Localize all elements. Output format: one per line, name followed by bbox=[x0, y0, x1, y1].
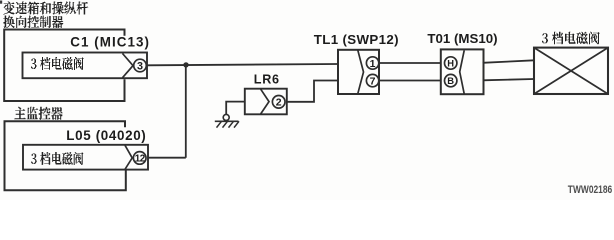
label 3 档电磁阀 inside L05 box bbox=[31, 152, 83, 165]
svg-text:3: 3 bbox=[137, 60, 143, 72]
connector TL1 box bbox=[338, 50, 379, 94]
wire from L05 pin 12 to riser bbox=[148, 157, 186, 159]
wire from ground to LR6 bbox=[226, 102, 245, 115]
svg-text:2: 2 bbox=[276, 97, 282, 109]
svg-text:C1 (MIC13): C1 (MIC13) bbox=[70, 34, 150, 49]
connector LR6 box bbox=[245, 89, 287, 115]
solenoid valve box with X bbox=[534, 48, 608, 94]
label 换向控制器 (reversing controller) line 2 bbox=[3, 16, 63, 29]
label 主监控器 (main monitor) bbox=[14, 107, 63, 120]
svg-text:T01 (MS10): T01 (MS10) bbox=[427, 31, 497, 46]
label 3 档电磁阀 (3rd speed solenoid valve) bbox=[542, 32, 600, 45]
pin 1 circle of TL1 bbox=[366, 57, 378, 69]
pin 7 circle of TL1 bbox=[366, 74, 378, 86]
pin B circle of T01 bbox=[445, 74, 457, 86]
svg-text:TWW02186: TWW02186 bbox=[568, 184, 613, 196]
connector T01 box bbox=[441, 49, 484, 94]
wire from LR6 pin 2 up to TL1 bbox=[287, 81, 338, 102]
pin H circle of T01 bbox=[445, 57, 457, 69]
svg-text:H: H bbox=[447, 58, 454, 69]
wire T01 H to solenoid bbox=[483, 60, 535, 63]
scan speck top-left corner bbox=[0, 1, 2, 4]
wire riser from junction down to L05 branch bbox=[185, 65, 187, 158]
connector LR6 wedge bbox=[261, 89, 269, 114]
svg-text:12: 12 bbox=[135, 153, 146, 164]
pin 3 circle of C1 bbox=[134, 59, 147, 72]
monitor L05 outer box bbox=[5, 121, 126, 190]
svg-text:7: 7 bbox=[370, 76, 376, 88]
connector L05 wedge bbox=[125, 145, 132, 169]
connector T01 wedge bbox=[460, 50, 465, 93]
svg-text:L05 (04020): L05 (04020) bbox=[66, 128, 146, 143]
label 变速箱和操纵杆 (gearbox and control lever) line 1 bbox=[3, 2, 88, 15]
svg-text:LR6: LR6 bbox=[254, 73, 280, 87]
junction node dot bbox=[183, 62, 188, 67]
wire from C1 pin 3 to TL1 bbox=[147, 64, 338, 65]
svg-text:TL1 (SWP12): TL1 (SWP12) bbox=[314, 32, 399, 47]
wire TL1 pin1 to T01 pin H bbox=[379, 62, 441, 64]
connector L05 inner box (3rd speed solenoid output) bbox=[23, 145, 148, 170]
connector TL1 wedge bbox=[358, 50, 364, 93]
controller C1 outer box (transmission and control lever reversing controller) bbox=[4, 30, 124, 102]
ground symbol bbox=[215, 114, 239, 127]
pin 2 circle of LR6 bbox=[272, 96, 285, 109]
svg-text:1: 1 bbox=[370, 58, 376, 70]
wire T01 B to solenoid bbox=[483, 79, 535, 80]
wire TL1 pin7 to T01 pin B bbox=[379, 80, 441, 82]
svg-text:B: B bbox=[447, 75, 454, 86]
connector C1 inner box (3rd speed solenoid output) bbox=[23, 53, 148, 79]
connector C1 wedge bbox=[123, 54, 134, 78]
label 3 档电磁阀 inside C1 box bbox=[31, 57, 84, 70]
pin 12 circle of L05 bbox=[133, 152, 146, 165]
